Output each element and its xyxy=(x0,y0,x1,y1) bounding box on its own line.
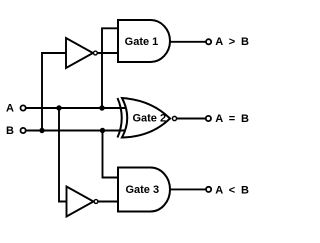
svg-text:A: A xyxy=(6,103,14,115)
wire A to Gate 1 input xyxy=(102,28,119,109)
wire B to Gate 3 input xyxy=(103,130,119,178)
junction B / Gate 3 xyxy=(100,128,105,133)
terminal A xyxy=(21,105,26,110)
terminal A<B xyxy=(206,187,211,192)
wire A horizontal xyxy=(26,107,132,109)
terminal A=B xyxy=(206,116,211,121)
inverter U2 (NOT A) xyxy=(67,187,98,217)
AND gate Gate 1 (A > B) xyxy=(118,20,170,62)
svg-text:B: B xyxy=(6,125,14,137)
svg-text:Gate 1: Gate 1 xyxy=(125,36,159,48)
wire Gate 2 output xyxy=(177,118,206,120)
wire A to inverter U2 input xyxy=(59,107,67,202)
wire inverter U1 output to Gate 1 xyxy=(98,52,120,54)
wire B horizontal xyxy=(26,130,132,132)
wire inverter U2 output to Gate 3 xyxy=(98,201,119,203)
svg-text:A < B: A < B xyxy=(215,184,250,196)
junction A / Gate 1 xyxy=(99,105,104,110)
terminal A>B xyxy=(206,39,211,44)
wire B to inverter U1 input xyxy=(42,53,67,131)
terminal B xyxy=(21,128,26,133)
svg-text:A = B: A = B xyxy=(215,113,250,125)
XNOR gate Gate 2 (A = B) xyxy=(118,98,177,138)
inverter U1 (NOT B) xyxy=(66,38,97,68)
junction B / U1 xyxy=(39,128,44,133)
svg-text:Gate 2: Gate 2 xyxy=(132,112,166,124)
wire Gate 1 output xyxy=(170,41,206,43)
svg-text:A > B: A > B xyxy=(215,36,250,48)
wire Gate 3 output xyxy=(170,188,206,190)
svg-text:Gate 3: Gate 3 xyxy=(125,184,159,196)
AND gate Gate 3 (A < B) xyxy=(118,168,170,212)
junction A / U2 xyxy=(56,105,61,110)
